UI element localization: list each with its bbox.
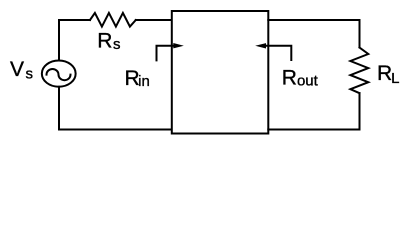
two-port network box xyxy=(172,11,268,134)
svg-text:RL: RL xyxy=(377,62,400,87)
svg-text:Vs: Vs xyxy=(10,58,33,83)
sine wave inside source xyxy=(47,69,71,80)
svg-text:Rout: Rout xyxy=(282,67,319,90)
arrow Rin bent line xyxy=(157,46,175,61)
wire box right to RL top xyxy=(268,20,359,47)
wire top-left from source to Rs xyxy=(59,20,90,61)
svg-text:Rs: Rs xyxy=(97,29,120,53)
svg-text:Rin: Rin xyxy=(125,67,150,90)
wire Rs to box left xyxy=(136,19,172,21)
voltage source Vs xyxy=(42,61,76,87)
arrowhead Rin xyxy=(173,43,184,48)
wire bottom-left from source to box xyxy=(59,87,172,130)
resistor RL xyxy=(350,48,368,94)
arrowhead Rout xyxy=(255,43,266,48)
resistor Rs xyxy=(90,13,136,27)
arrow Rout bent line xyxy=(265,46,292,60)
wire RL bottom to box right xyxy=(268,93,359,129)
